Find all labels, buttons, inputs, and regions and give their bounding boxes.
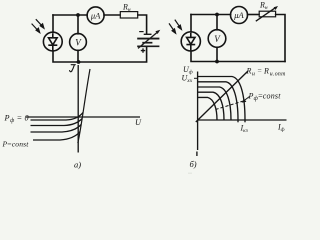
axis U (horizontal, graph A) [26,116,140,118]
svg-text:μA: μA [90,11,101,21]
wire left vertical above photodiode (right) [190,15,192,33]
wire left vertical above photodiode [52,15,54,32]
arrow from Pф=const label [244,97,250,101]
svg-text:R: R [246,67,252,76]
battery plus sign [141,48,145,52]
dashed Pф locus line [216,101,245,110]
wire top-left segment (right circuit) [191,14,231,16]
voltmeter PV2 (right) [208,30,226,48]
characteristic curve 3 [198,87,231,120]
wire top-left segment [53,14,87,16]
curve 4 P=const [33,132,80,141]
svg-text:P=const: P=const [2,140,30,149]
svg-text:Pф = 0: Pф = 0 [4,114,30,125]
characteristic curve 2 [198,82,238,120]
curve 2 [31,119,83,126]
wire resistor to right side [276,15,285,62]
axis Iф (horizontal, graph B) [198,119,287,121]
light arrows into VD1 [32,19,44,32]
wire voltmeter branch bottom (right) [216,47,218,61]
wire microammeter to resistor [104,14,120,16]
wire voltmeter branch top (right) [216,15,218,30]
node: top junction (right circuit) [215,13,219,17]
label I (graph A vertical axis) [70,65,76,72]
light arrows into VD2 [169,20,181,34]
variable resistor arrow [256,8,276,22]
characteristic curve 5 (innermost) [198,97,217,120]
wire voltmeter branch top [77,15,79,34]
svg-text:=: = [258,66,262,75]
svg-text:н: н [252,71,255,77]
tick extensions below axis [237,120,239,122]
microammeter PA1 (left) [87,7,104,24]
faint speck bottom right [188,173,192,174]
battery GB (variable source) [137,34,159,46]
curve Pф=0 (dark current) [31,113,84,121]
battery minus sign [139,31,143,33]
microammeter PA2 (right) [231,7,248,24]
node: top junction (left circuit) [76,13,80,17]
wire battery to bottom-right corner [79,47,147,62]
svg-text:U: U [135,118,142,127]
node: bottom junction (left circuit) [77,60,81,64]
photodiode VD2 (right) [181,32,200,51]
characteristic curve 1 (outermost) [198,77,245,121]
load line Rн=Rн.опт [196,71,248,122]
axis I (vertical, graph A) [77,65,79,153]
battery adjustment arrow [138,32,157,48]
axis Uф (vertical, graph B) [197,72,199,151]
wire voltmeter branch bottom [77,50,79,62]
characteristic curve 4 [198,92,224,120]
photodiode VD1 (left) [43,32,62,51]
curve 3 [31,125,82,133]
wire microammeter to resistor (right) [248,14,259,16]
node: bottom junction (right circuit) [215,60,219,64]
axis bottom tick mark [196,152,198,157]
forward steep characteristic line [78,69,90,143]
wire resistor to top-right corner [138,15,147,34]
wire bottom (right circuit) [191,51,285,61]
voltmeter PV1 (left) [70,34,87,51]
svg-text:μA: μA [233,10,244,20]
wire bottom-left segment [53,51,79,62]
svg-text:б): б) [190,159,197,169]
svg-text:а): а) [74,160,81,170]
variable resistor Rн (right) [259,11,275,17]
tick Uхх on vertical axis [194,77,198,79]
svg-text:Pф=const: Pф=const [248,91,282,102]
resistor Rн (left) [120,12,137,18]
svg-text:R: R [263,67,269,76]
svg-text:н.опт: н.опт [270,71,286,77]
